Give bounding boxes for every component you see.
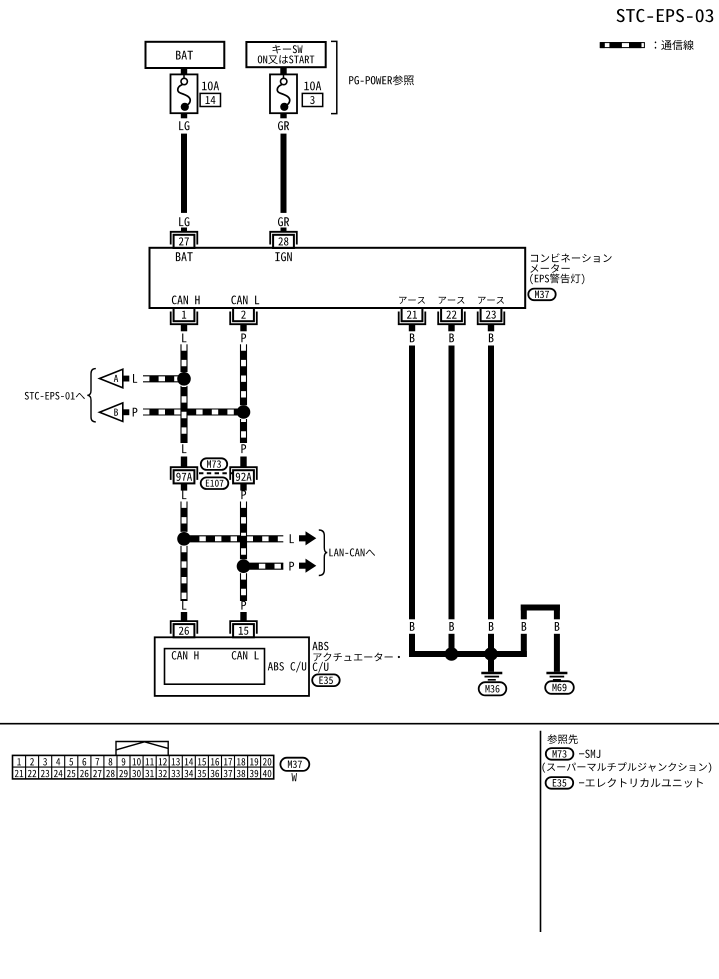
connector pin 26 bbox=[171, 621, 198, 637]
connector M37 pin grid bbox=[13, 755, 274, 779]
ground wire B vertical x=491.0 bbox=[488, 346, 494, 620]
wire label L at LAN arrow bbox=[290, 534, 294, 543]
destination label LAN-CANへ bbox=[329, 548, 375, 556]
SMJ dashed link bbox=[199, 472, 233, 474]
wire label GR (upper) bbox=[278, 121, 289, 130]
ground wire 23 to M36 bbox=[488, 654, 494, 672]
connector 97A bbox=[171, 467, 198, 483]
pin label CAN H (ABS) bbox=[172, 651, 199, 660]
ground jumper top bbox=[521, 605, 560, 611]
connector pin 22 bbox=[438, 308, 465, 324]
ground id M69 oval bbox=[545, 681, 574, 694]
footer divider vertical bbox=[540, 731, 542, 932]
wire stub to pin 28 bbox=[281, 228, 287, 233]
node junction P/LAN bbox=[237, 559, 251, 573]
wire label B lower bbox=[522, 622, 527, 631]
wire label B lower bbox=[489, 622, 494, 631]
connector M37 key tab bbox=[116, 742, 168, 756]
ABS actuator box bbox=[155, 637, 309, 696]
brace LAN-CAN bbox=[319, 530, 328, 576]
wire label B lower bbox=[449, 622, 454, 631]
connector color W bbox=[292, 773, 297, 781]
wire label P below 92A bbox=[241, 490, 246, 499]
wire stub into 92A bbox=[240, 457, 246, 468]
wire label P at arrow B bbox=[133, 408, 138, 417]
fuse number box 14 bbox=[200, 93, 220, 106]
wire label GR (lower) bbox=[278, 217, 289, 226]
wire label L below 97A bbox=[182, 490, 186, 499]
power source box BAT bbox=[146, 42, 225, 68]
connector pin 23 bbox=[478, 308, 505, 324]
meter name メーター bbox=[530, 264, 569, 273]
pin label アース bbox=[399, 297, 425, 304]
fuse rating 10A label bbox=[304, 81, 321, 90]
wire label LG (upper) bbox=[179, 121, 189, 130]
connector id M73 oval bbox=[201, 458, 227, 470]
ground wire lower to bus bbox=[449, 634, 455, 657]
combination meter box bbox=[150, 248, 526, 308]
label スーパーマルチプルジャンクション bbox=[542, 762, 711, 772]
comm wire P-row to LAN-CAN bbox=[244, 563, 284, 569]
node junction P/B bbox=[237, 405, 251, 419]
label C/U bbox=[313, 662, 329, 673]
comm wire L-row crossing block bbox=[241, 536, 247, 542]
comm wire P seg1 bbox=[241, 344, 247, 405]
ground wire 5 lower bbox=[554, 634, 560, 672]
ground wire 4 upper bbox=[521, 605, 527, 620]
connector pin 21 bbox=[399, 308, 426, 324]
wire stub below 97A bbox=[181, 483, 187, 490]
destination label STC-EPS-01へ bbox=[25, 392, 85, 400]
comm wire L seg1 bbox=[181, 344, 187, 372]
comm wire A-row horizontal bbox=[143, 376, 184, 382]
comm wire B-row horizontal (left of crossing) bbox=[143, 409, 181, 415]
connector M37 pin numbers bbox=[15, 758, 272, 777]
ground id M36 oval bbox=[479, 682, 507, 695]
ground wire lower to bus bbox=[409, 634, 415, 657]
reference E35 oval bbox=[546, 777, 574, 789]
fuse rating 10A label bbox=[202, 81, 219, 90]
comm wire L seg4 bbox=[181, 546, 187, 601]
wire stub below 92A bbox=[240, 483, 246, 490]
arrow B to STC-EPS-01 bbox=[100, 403, 130, 422]
pin label CAN L bbox=[231, 296, 259, 305]
wire stub below pin bbox=[409, 324, 415, 331]
title STC-EPS-03 bbox=[617, 9, 714, 22]
label アクチュエーター・ bbox=[314, 653, 401, 662]
wire GR vertical bbox=[281, 134, 287, 213]
ground symbol M69 bbox=[546, 673, 567, 680]
wire label B lower bbox=[555, 622, 560, 631]
separator line bbox=[0, 723, 719, 725]
comm wire P seg2 bbox=[241, 419, 247, 443]
wire label L above 97A bbox=[182, 444, 186, 453]
arrow to LAN-CAN (P) bbox=[299, 559, 316, 573]
comm wire P seg3 bbox=[241, 502, 247, 560]
node junction ground 23 bbox=[484, 647, 498, 661]
meter name EPS警告灯 bbox=[530, 274, 584, 285]
connector pin 2 bbox=[230, 308, 257, 324]
fuse 10A [14] bbox=[171, 68, 198, 118]
arrow A to STC-EPS-01 bbox=[100, 369, 130, 388]
label 参照先 bbox=[547, 734, 578, 744]
connector id M37 oval bbox=[528, 289, 555, 301]
comm wire L-row to LAN-CAN (right) bbox=[247, 536, 284, 542]
wire label L at arrow A bbox=[133, 374, 137, 383]
arrow to LAN-CAN (L) bbox=[299, 531, 316, 545]
bracket PG-POWER reference bbox=[331, 41, 414, 113]
wire label P below pin 2 bbox=[241, 334, 246, 343]
connector pin 28 bbox=[270, 232, 297, 248]
wire LG vertical bbox=[181, 134, 187, 213]
wire stub into 97A bbox=[181, 457, 187, 468]
wire stub into pin 15 bbox=[240, 612, 246, 621]
meter name コンビネーション bbox=[531, 253, 612, 262]
connector id E107 oval bbox=[201, 477, 229, 489]
wire stub below pin bbox=[448, 324, 454, 331]
pin label アース bbox=[478, 297, 504, 304]
label ABS bbox=[312, 642, 328, 651]
legend label 通信線 bbox=[655, 40, 694, 50]
wire label L below pin 1 bbox=[182, 334, 186, 343]
connector 92A bbox=[230, 467, 257, 483]
pin label CAN H bbox=[172, 296, 200, 305]
brace STC-EPS-01 bbox=[87, 369, 96, 422]
ground wire lower to bus bbox=[521, 634, 527, 657]
wire stub into pin 26 bbox=[181, 612, 187, 621]
wire label P at LAN arrow bbox=[289, 562, 294, 571]
ground bus bbox=[409, 651, 527, 657]
wire label L above pin 26 bbox=[182, 601, 186, 610]
comm wire L seg3 bbox=[181, 502, 187, 532]
label -エレクトリカルユニット bbox=[579, 778, 703, 788]
ABS C/U inner box bbox=[165, 649, 265, 685]
connector pin 1 bbox=[171, 308, 198, 324]
ground wire 5 upper bbox=[554, 605, 560, 620]
wire stub below pin bbox=[240, 324, 246, 331]
node junction ground 22 bbox=[445, 647, 459, 661]
comm wire P seg4 bbox=[241, 573, 247, 601]
wire label LG (lower) bbox=[179, 217, 189, 226]
node junction L/LAN bbox=[177, 532, 191, 546]
label -SMJ bbox=[579, 750, 600, 758]
wire label P above 92A bbox=[241, 444, 246, 453]
connector pin 27 bbox=[171, 232, 198, 248]
wire label B below pin bbox=[410, 334, 415, 343]
ground wire B vertical x=412.0 bbox=[409, 346, 415, 620]
wire stub below pin bbox=[488, 324, 494, 331]
wire stub below pin bbox=[181, 324, 187, 331]
wire label B lower bbox=[410, 622, 415, 631]
comm wire L seg2 bbox=[181, 386, 187, 443]
wire label B below pin bbox=[489, 334, 494, 343]
connector id E35 oval bbox=[312, 674, 340, 686]
comm wire L-row to LAN-CAN (left) bbox=[184, 536, 241, 542]
ground wire lower to bus bbox=[488, 634, 494, 657]
fuse number box 3 bbox=[302, 93, 322, 106]
pin label IGN bbox=[275, 252, 292, 261]
wire stub to pin 27 bbox=[181, 228, 187, 233]
wire label B below pin bbox=[449, 334, 454, 343]
power source box key switch bbox=[246, 42, 325, 67]
ground wire B vertical x=451.5 bbox=[449, 346, 455, 620]
ground symbol M36 bbox=[481, 673, 502, 680]
pin label アース bbox=[439, 297, 465, 304]
comm wire B-row horizontal (right of crossing) bbox=[187, 409, 244, 415]
label ABS C/U bbox=[268, 662, 306, 673]
node junction L/A bbox=[177, 372, 191, 386]
fuse 10A [3] bbox=[270, 68, 297, 118]
pin label CAN L (ABS) bbox=[232, 651, 259, 660]
connector id M37 oval (footer) bbox=[280, 758, 309, 771]
wire label P above pin 15 bbox=[241, 601, 246, 610]
connector pin 15 bbox=[230, 621, 257, 637]
reference M73 oval bbox=[546, 748, 574, 760]
legend communication-line sample bbox=[600, 42, 644, 48]
pin label BAT bbox=[176, 252, 193, 261]
